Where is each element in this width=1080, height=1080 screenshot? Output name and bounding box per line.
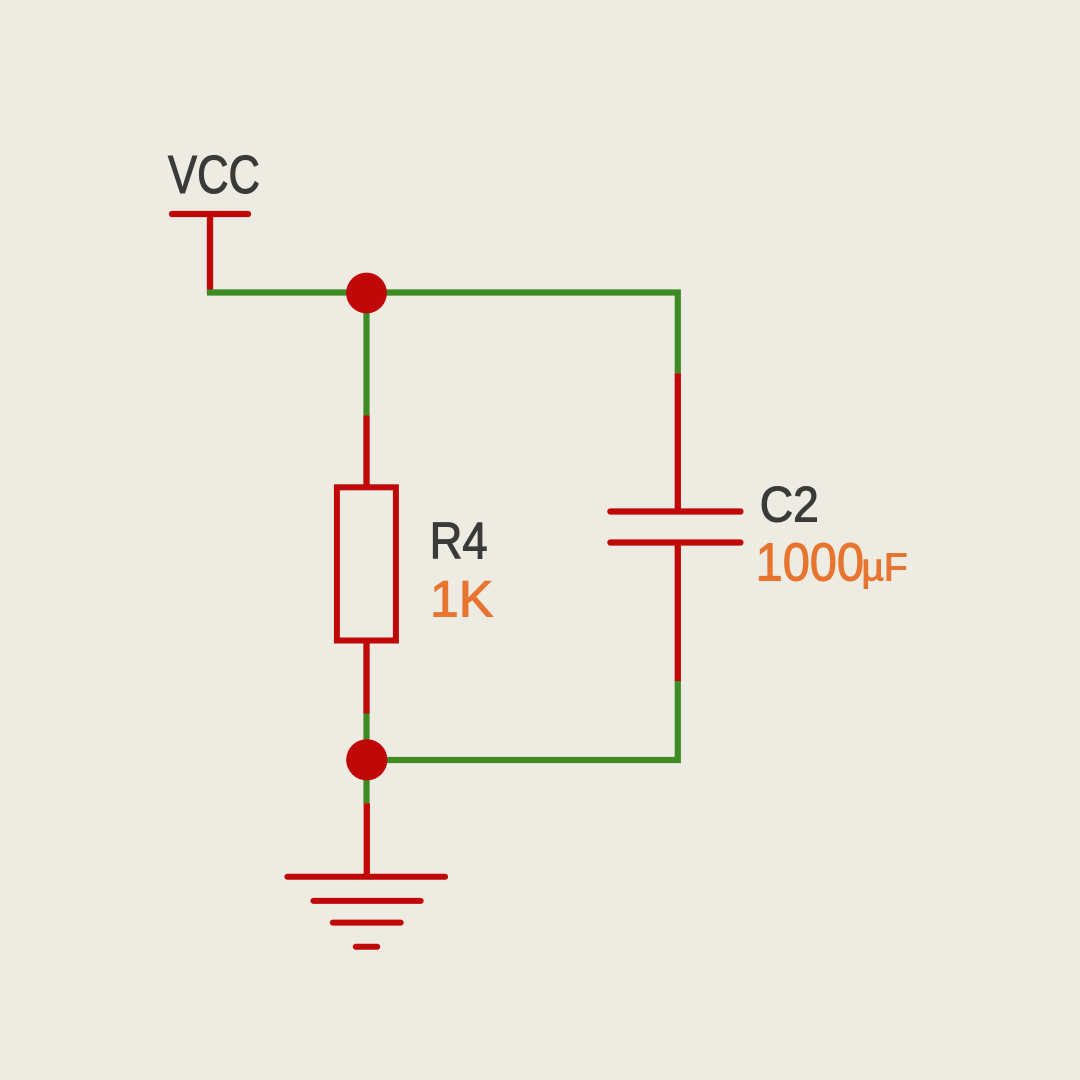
wire: green into bottom junction (363, 714, 369, 761)
wire: green below bottom junction (363, 760, 369, 803)
svg-text:1K: 1K (430, 571, 493, 628)
svg-text:R4: R4 (430, 513, 488, 571)
svg-text:C2: C2 (760, 476, 819, 532)
capacitor C2 bottom plate (610, 539, 740, 545)
resistor R4 body (337, 487, 396, 640)
wire: red vertical to capacitor top plate (675, 373, 681, 511)
ground symbol (287, 877, 445, 947)
capacitor C2 top plate (610, 508, 740, 514)
wire: green vertical below top junction (363, 293, 369, 416)
wire: red below capacitor (675, 543, 681, 682)
wire: red vertical to resistor top (363, 416, 369, 488)
wire: top net (green) from VCC corner to right corner and down (207, 293, 678, 374)
svg-text:VCC: VCC (168, 145, 260, 205)
wire: VCC stub (red) (207, 214, 213, 294)
wire: red down to ground (364, 803, 370, 876)
wire: bottom net (green) from junction right and up (367, 681, 678, 760)
wire: red below resistor (363, 641, 369, 714)
junction dot bottom (346, 739, 387, 780)
junction dot top (346, 273, 387, 314)
svg-text:1000: 1000 (756, 532, 864, 592)
VCC power symbol bar (172, 211, 248, 217)
svg-text:µF: µF (862, 546, 908, 589)
